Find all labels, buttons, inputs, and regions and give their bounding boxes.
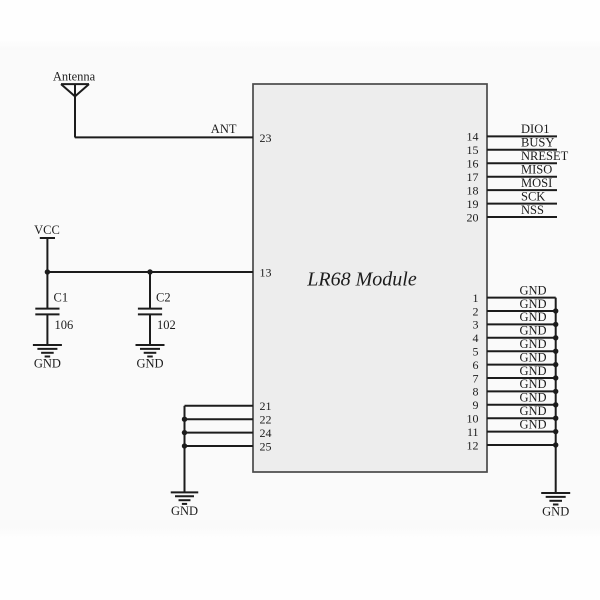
junction dot at VCC/C1 bbox=[45, 269, 50, 274]
ground symbol under C2 bbox=[136, 345, 165, 357]
junction dot on right bus pin 10 bbox=[553, 416, 558, 421]
pin 25 number bbox=[260, 439, 272, 453]
svg-text:GND: GND bbox=[519, 417, 546, 431]
svg-text:NRESET: NRESET bbox=[521, 149, 569, 163]
svg-text:17: 17 bbox=[467, 170, 479, 184]
wire pin 11 to right ground bus bbox=[487, 431, 556, 433]
svg-text:11: 11 bbox=[467, 425, 479, 439]
wire pin 22 to left ground bus bbox=[185, 418, 254, 420]
wire pin 20 signal NSS bbox=[487, 216, 557, 218]
svg-text:16: 16 bbox=[467, 157, 479, 171]
pin 16 number bbox=[467, 157, 479, 171]
svg-text:GND: GND bbox=[519, 350, 546, 364]
pin 9 number bbox=[473, 398, 479, 412]
wire pin 2 to right ground bus bbox=[487, 310, 556, 312]
VCC label bbox=[34, 223, 60, 237]
svg-text:C2: C2 bbox=[156, 291, 171, 305]
svg-text:ANT: ANT bbox=[211, 122, 237, 136]
pin 7 number bbox=[473, 371, 479, 385]
net label NRESET bbox=[521, 149, 569, 163]
svg-text:NSS: NSS bbox=[521, 203, 544, 217]
left ground bus wire bbox=[184, 406, 186, 493]
svg-text:12: 12 bbox=[467, 438, 479, 452]
svg-text:SCK: SCK bbox=[521, 189, 545, 203]
wire pin 8 to right ground bus bbox=[487, 390, 556, 392]
svg-text:3: 3 bbox=[473, 318, 479, 332]
junction dot at C2 bbox=[147, 269, 152, 274]
junction dot on left bus y=446.0 bbox=[182, 443, 187, 448]
svg-text:1: 1 bbox=[473, 291, 479, 305]
wire C2 bottom to ground bbox=[149, 314, 151, 345]
net label GND pin 1 bbox=[519, 283, 546, 297]
junction dot on left bus y=432.6 bbox=[182, 430, 187, 435]
net label GND pin 3 bbox=[519, 310, 546, 324]
net label GND pin 7 bbox=[519, 364, 546, 378]
svg-text:GND: GND bbox=[136, 357, 163, 371]
net label GND pin 8 bbox=[519, 377, 546, 391]
wire pin 3 to right ground bus bbox=[487, 323, 556, 325]
ground symbol right bus bbox=[541, 493, 570, 505]
junction dot on right bus pin 11 bbox=[553, 429, 558, 434]
pin 18 number bbox=[467, 183, 479, 197]
svg-text:18: 18 bbox=[467, 183, 479, 197]
pin 14 number bbox=[467, 130, 479, 144]
pin 21 number bbox=[260, 399, 272, 413]
pin 3 number bbox=[473, 318, 479, 332]
net label MOSI bbox=[521, 176, 552, 190]
wire pin 15 signal BUSY bbox=[487, 149, 557, 151]
pin 2 number bbox=[473, 304, 479, 318]
net label BUSY bbox=[521, 136, 554, 150]
pin 17 number bbox=[467, 170, 479, 184]
junction dot on right bus pin 7 bbox=[553, 375, 558, 380]
svg-text:106: 106 bbox=[55, 318, 74, 332]
net label GND pin 5 bbox=[519, 337, 546, 351]
junction dot on right bus pin 12 bbox=[553, 442, 558, 447]
junction dot on right bus pin 6 bbox=[553, 362, 558, 367]
GND label under C1 bbox=[34, 357, 61, 371]
svg-text:GND: GND bbox=[519, 391, 546, 405]
net label SCK bbox=[521, 189, 545, 203]
wire pin 5 to right ground bus bbox=[487, 350, 556, 352]
svg-text:MOSI: MOSI bbox=[521, 176, 552, 190]
C2 reference label bbox=[156, 291, 171, 305]
capacitor C1 bbox=[35, 309, 59, 315]
net label GND pin 2 bbox=[519, 297, 546, 311]
svg-text:GND: GND bbox=[519, 297, 546, 311]
wire pin 9 to right ground bus bbox=[487, 404, 556, 406]
svg-text:10: 10 bbox=[467, 412, 479, 426]
svg-text:8: 8 bbox=[473, 385, 479, 399]
svg-text:9: 9 bbox=[473, 398, 479, 412]
svg-text:C1: C1 bbox=[54, 291, 69, 305]
junction dot on right bus pin 8 bbox=[553, 389, 558, 394]
wire pin 7 to right ground bus bbox=[487, 377, 556, 379]
wire pin 16 signal NRESET bbox=[487, 162, 557, 164]
net label GND pin 9 bbox=[519, 391, 546, 405]
svg-text:LR68 Module: LR68 Module bbox=[306, 269, 417, 291]
GND label left bus bbox=[171, 504, 198, 518]
wire rail to C2 top bbox=[149, 272, 151, 309]
net label GND pin 6 bbox=[519, 350, 546, 364]
svg-text:22: 22 bbox=[260, 413, 272, 427]
wire pin 25 to left ground bus bbox=[185, 445, 254, 447]
antenna label bbox=[53, 70, 96, 84]
pin 22 number bbox=[260, 413, 272, 427]
wire pin 6 to right ground bus bbox=[487, 364, 556, 366]
right ground bus wire bbox=[555, 298, 557, 493]
svg-text:2: 2 bbox=[473, 304, 479, 318]
net label GND pin 11 bbox=[519, 417, 546, 431]
pin 12 number bbox=[467, 438, 479, 452]
junction dot on left bus y=419.2 bbox=[182, 417, 187, 422]
GND label right bus bbox=[542, 504, 569, 518]
svg-text:102: 102 bbox=[157, 318, 176, 332]
svg-text:19: 19 bbox=[467, 197, 479, 211]
svg-text:GND: GND bbox=[542, 504, 569, 518]
svg-text:GND: GND bbox=[34, 357, 61, 371]
svg-text:DIO1: DIO1 bbox=[521, 122, 549, 136]
junction dot on right bus pin 9 bbox=[553, 402, 558, 407]
svg-text:15: 15 bbox=[467, 143, 479, 157]
wire pin 14 signal DIO1 bbox=[487, 135, 557, 137]
svg-text:GND: GND bbox=[519, 337, 546, 351]
pin 11 number bbox=[467, 425, 479, 439]
wire C1 bottom to ground bbox=[46, 314, 48, 345]
C1 reference label bbox=[54, 291, 69, 305]
wire pin 4 to right ground bus bbox=[487, 337, 556, 339]
pin 23 number bbox=[260, 131, 272, 145]
svg-text:GND: GND bbox=[519, 324, 546, 338]
wire pin 18 signal MOSI bbox=[487, 189, 557, 191]
net label DIO1 bbox=[521, 122, 549, 136]
module U1 LR68 Module body bbox=[253, 84, 487, 472]
pin 20 number bbox=[467, 210, 479, 224]
svg-text:GND: GND bbox=[519, 283, 546, 297]
C1 value 106 bbox=[55, 318, 74, 332]
svg-text:25: 25 bbox=[260, 439, 272, 453]
net label GND pin 4 bbox=[519, 324, 546, 338]
wire pin 12 to right ground bus bbox=[487, 444, 556, 446]
wire pin 17 signal MISO bbox=[487, 176, 557, 178]
pin 19 number bbox=[467, 197, 479, 211]
power symbol VCC bbox=[40, 238, 55, 272]
junction dot on right bus pin 2 bbox=[553, 308, 558, 313]
pin 24 number bbox=[260, 426, 272, 440]
svg-text:5: 5 bbox=[473, 345, 479, 359]
net label NSS bbox=[521, 203, 544, 217]
pin 6 number bbox=[473, 358, 479, 372]
svg-text:GND: GND bbox=[519, 404, 546, 418]
pin 8 number bbox=[473, 385, 479, 399]
wire antenna to pin 23 bbox=[75, 136, 253, 138]
junction dot on right bus pin 4 bbox=[553, 335, 558, 340]
svg-text:BUSY: BUSY bbox=[521, 136, 554, 150]
wire pin 19 signal SCK bbox=[487, 203, 557, 205]
C2 value 102 bbox=[157, 318, 176, 332]
svg-text:14: 14 bbox=[467, 130, 479, 144]
svg-text:20: 20 bbox=[467, 210, 479, 224]
svg-text:MISO: MISO bbox=[521, 163, 552, 177]
svg-text:VCC: VCC bbox=[34, 223, 60, 237]
wire rail to C1 top bbox=[46, 272, 48, 309]
pin 1 number bbox=[473, 291, 479, 305]
svg-text:GND: GND bbox=[519, 377, 546, 391]
svg-text:13: 13 bbox=[260, 265, 272, 279]
wire pin 10 to right ground bus bbox=[487, 417, 556, 419]
svg-text:GND: GND bbox=[519, 310, 546, 324]
wire pin 21 to left ground bus bbox=[185, 405, 254, 407]
svg-text:GND: GND bbox=[519, 364, 546, 378]
svg-text:4: 4 bbox=[473, 331, 479, 345]
svg-text:23: 23 bbox=[260, 131, 272, 145]
junction dot on right bus pin 5 bbox=[553, 349, 558, 354]
pin 13 number bbox=[260, 265, 272, 279]
svg-text:6: 6 bbox=[473, 358, 479, 372]
antenna symbol bbox=[61, 84, 89, 137]
ground symbol under C1 bbox=[33, 345, 62, 357]
svg-text:Antenna: Antenna bbox=[53, 70, 96, 84]
wire VCC rail to pin 13 bbox=[47, 271, 253, 273]
GND label under C2 bbox=[136, 357, 163, 371]
pin 4 number bbox=[473, 331, 479, 345]
svg-text:24: 24 bbox=[260, 426, 272, 440]
net label MISO bbox=[521, 163, 552, 177]
pin 10 number bbox=[467, 412, 479, 426]
svg-text:21: 21 bbox=[260, 399, 272, 413]
svg-text:GND: GND bbox=[171, 504, 198, 518]
pin 5 number bbox=[473, 345, 479, 359]
net label GND pin 10 bbox=[519, 404, 546, 418]
net label ANT bbox=[211, 122, 237, 136]
wire pin 1 to right ground bus bbox=[487, 297, 556, 299]
ground symbol left bus bbox=[171, 492, 199, 504]
module U1 title label bbox=[306, 269, 417, 291]
wire pin 24 to left ground bus bbox=[185, 432, 254, 434]
capacitor C2 bbox=[138, 309, 162, 315]
pin 15 number bbox=[467, 143, 479, 157]
junction dot on right bus pin 3 bbox=[553, 322, 558, 327]
svg-text:7: 7 bbox=[473, 371, 479, 385]
